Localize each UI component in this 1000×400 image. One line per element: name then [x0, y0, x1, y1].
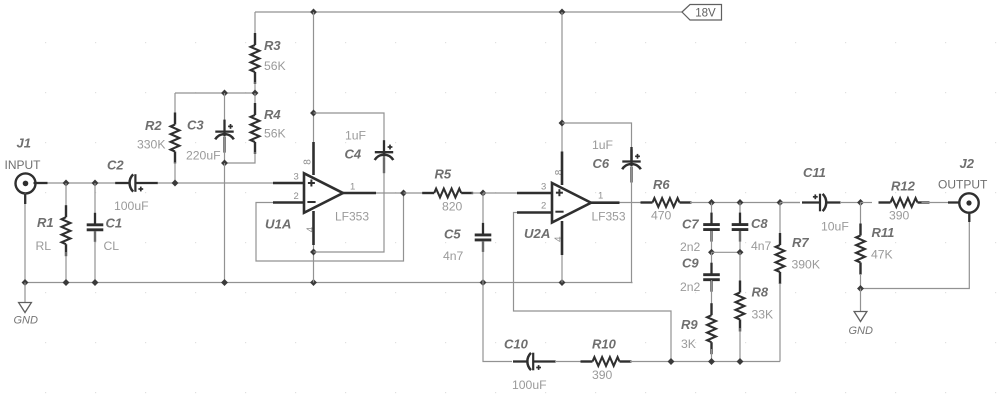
- junction rail C1: [92, 280, 98, 286]
- svg-text:3K: 3K: [681, 337, 696, 351]
- wire U2A output: [620, 202, 642, 204]
- value 10uF: [821, 220, 849, 234]
- connector J2: [959, 193, 978, 212]
- svg-text:R11: R11: [872, 225, 895, 240]
- capacitor C7: [703, 213, 720, 242]
- junction rail U2A pin4: [559, 280, 565, 286]
- svg-text:3: 3: [541, 182, 546, 193]
- wire C5 bottom: [482, 241, 484, 283]
- wire R10 right: [630, 361, 780, 363]
- wire J1 down to ground: [24, 194, 26, 283]
- wire bias to C3: [224, 93, 226, 122]
- pin 1 label U1A: [350, 182, 355, 193]
- value 2n2 C9: [680, 280, 701, 294]
- svg-text:820: 820: [442, 200, 463, 214]
- svg-text:C3: C3: [187, 118, 204, 133]
- label R12: [891, 179, 916, 194]
- label J2: [960, 156, 975, 171]
- svg-text:C4: C4: [345, 147, 362, 162]
- junction R7 top: [777, 200, 783, 206]
- label R7: [792, 235, 809, 250]
- svg-text:GND: GND: [849, 325, 874, 337]
- label R9: [681, 317, 698, 332]
- wire C7 top: [711, 203, 713, 222]
- svg-text:2: 2: [541, 201, 546, 212]
- wire U1A feedback loop: [256, 193, 404, 261]
- svg-text:100uF: 100uF: [512, 378, 547, 392]
- wire U1A pin4 to ground: [313, 245, 315, 283]
- label C4: [345, 147, 362, 162]
- wire R7 bottom: [779, 283, 781, 362]
- svg-text:C6: C6: [593, 156, 610, 171]
- svg-text:3: 3: [294, 172, 299, 183]
- wire C6 top: [562, 123, 632, 150]
- svg-text:10uF: 10uF: [821, 220, 849, 234]
- svg-text:J2: J2: [960, 156, 975, 171]
- junction feedback/chain: [668, 359, 674, 365]
- capacitor C11: [802, 194, 841, 212]
- junction C7/C9: [709, 249, 715, 255]
- junction R3/R4: [252, 90, 258, 96]
- value 56K R4: [264, 127, 286, 141]
- svg-text:1uF: 1uF: [592, 138, 613, 152]
- wire pin3 stub U1A: [273, 182, 305, 185]
- label R3: [264, 38, 281, 53]
- label R5: [435, 166, 452, 181]
- svg-text:390: 390: [592, 368, 613, 382]
- label C2: [107, 158, 124, 173]
- junction top rail / U2A pin8: [559, 9, 565, 15]
- pin 8 label U2A: [554, 169, 565, 175]
- junction rail J1: [22, 280, 28, 286]
- wire C8 top: [739, 203, 741, 222]
- junction C4 bottom / pin4: [311, 249, 317, 255]
- label U2A: [524, 226, 550, 241]
- svg-text:1: 1: [598, 191, 603, 202]
- svg-text:R9: R9: [681, 317, 698, 332]
- resistor R10: [581, 357, 632, 366]
- junction rail U1A pin4: [311, 280, 317, 286]
- value 820: [442, 200, 463, 214]
- wire to U2A pin3: [483, 192, 517, 194]
- value 330K: [137, 138, 165, 152]
- wire U2A pin4 stub: [561, 221, 564, 255]
- svg-text:390K: 390K: [792, 258, 820, 272]
- pin 4 label U1A: [306, 226, 317, 232]
- svg-text:56K: 56K: [264, 127, 286, 141]
- label C10: [504, 337, 529, 352]
- capacitor C3: [215, 120, 234, 153]
- svg-text:33K: 33K: [752, 308, 774, 322]
- label R8: [752, 285, 769, 300]
- label R11: [872, 225, 895, 240]
- wire +18V top rail: [255, 11, 682, 13]
- value 3K: [681, 337, 696, 351]
- pin 3 label U2A: [541, 182, 546, 193]
- wire C3 to bottom node: [224, 136, 226, 163]
- value 1uF C6: [592, 138, 613, 152]
- label R1: [37, 215, 54, 230]
- wire R11 bottom: [860, 274, 862, 289]
- wire pin2 stub U1A: [273, 201, 305, 204]
- pin 2 label U2A: [541, 201, 546, 212]
- wire pin3 stub U2A: [517, 192, 553, 195]
- value 2n2 C7: [680, 240, 701, 254]
- junction C8 top: [737, 200, 743, 206]
- label C3: [187, 118, 204, 133]
- svg-text:C1: C1: [106, 216, 123, 231]
- svg-text:U2A: U2A: [524, 226, 550, 241]
- wire R6 right: [690, 202, 800, 204]
- svg-text:8: 8: [303, 159, 314, 165]
- wire C3 node to ground rail: [224, 163, 226, 283]
- wire C6 bottom: [632, 167, 633, 283]
- svg-text:R5: R5: [435, 166, 452, 181]
- value 56K R3: [264, 59, 286, 73]
- value CL: [104, 239, 120, 253]
- label C11: [803, 165, 826, 180]
- capacitor C6 leads: [630, 147, 632, 161]
- value 220uF: [186, 149, 221, 163]
- pin 4 label U2A: [554, 236, 565, 242]
- capacitor C1: [87, 213, 104, 242]
- wire R12 to J2: [922, 202, 959, 204]
- label OUTPUT: [938, 178, 988, 192]
- label J1: [17, 136, 31, 151]
- label C6: [593, 156, 610, 171]
- label LF353 U2A: [592, 210, 626, 224]
- pin 3 label U1A: [294, 172, 299, 183]
- value 1uF C4: [345, 129, 366, 143]
- svg-text:C9: C9: [682, 255, 699, 270]
- value 470: [651, 209, 672, 223]
- svg-text:R6: R6: [653, 177, 670, 192]
- junction R11 top: [858, 200, 864, 206]
- svg-text:2: 2: [294, 191, 299, 202]
- wire R8 top: [739, 252, 741, 283]
- wire R1 bottom: [65, 252, 67, 283]
- svg-text:R12: R12: [891, 179, 916, 194]
- value 4n7 C8: [751, 239, 772, 253]
- connector J1: [16, 173, 36, 193]
- ground J2: [849, 289, 874, 338]
- wire bias to R2: [174, 93, 176, 113]
- wire to R5: [404, 192, 425, 194]
- label LF353 U1A: [335, 210, 369, 224]
- svg-text:4n7: 4n7: [443, 249, 464, 263]
- svg-text:2n2: 2n2: [680, 240, 701, 254]
- junction C4 top: [311, 110, 317, 116]
- wire 18V to R3: [254, 12, 256, 35]
- wire C10 to R10: [555, 361, 582, 363]
- svg-text:C2: C2: [107, 158, 124, 173]
- label R6: [653, 177, 670, 192]
- junction U1A output node: [401, 190, 407, 196]
- resistor R8: [736, 281, 745, 332]
- svg-text:R2: R2: [145, 118, 162, 133]
- svg-text:330K: 330K: [137, 138, 165, 152]
- value 4n7 C5: [443, 249, 464, 263]
- capacitor C6: [622, 150, 641, 183]
- junction bias/C3: [222, 90, 228, 96]
- capacitor C4: [375, 140, 394, 173]
- svg-text:47K: 47K: [871, 248, 893, 262]
- svg-text:4: 4: [306, 226, 317, 232]
- wire U1A output: [376, 192, 404, 194]
- svg-text:56K: 56K: [264, 59, 286, 73]
- value 33K: [752, 308, 774, 322]
- wire bias node: [175, 92, 255, 94]
- wire link C7 C8: [712, 251, 741, 253]
- capacitor C9: [703, 263, 720, 292]
- wire pin2 stub U2A: [517, 211, 553, 214]
- wire U1A pin8 to rail: [313, 12, 315, 142]
- svg-text:R7: R7: [792, 235, 809, 250]
- junction C8/R8: [737, 249, 743, 255]
- wire U1A pin4 stub: [312, 211, 315, 245]
- junction rail C3: [222, 280, 228, 286]
- wire R4 to bottom: [225, 152, 256, 163]
- wire J2 ground return: [861, 213, 970, 289]
- wire C9 bottom: [711, 280, 713, 305]
- svg-text:U1A: U1A: [265, 217, 291, 232]
- op-amp U2A: [552, 183, 591, 223]
- wire R1 top: [65, 183, 67, 206]
- resistor R6: [641, 198, 692, 207]
- svg-text:18V: 18V: [695, 8, 716, 20]
- value 100uF C10: [512, 378, 547, 392]
- wire U1A pin8 stub: [312, 142, 315, 175]
- wire R5 to C5 node: [472, 192, 484, 194]
- svg-text:RL: RL: [36, 239, 52, 253]
- capacitor C5: [475, 223, 492, 252]
- op-amp U1A: [304, 173, 343, 213]
- wire R11 top: [860, 203, 862, 230]
- label C5: [444, 227, 461, 242]
- wire to R12: [861, 202, 873, 204]
- label INPUT: [5, 158, 42, 172]
- value 100uF C2: [114, 199, 149, 213]
- svg-text:220uF: 220uF: [186, 149, 221, 163]
- wire U2A pin8 stub: [561, 152, 564, 186]
- wire C2 to opamp: [158, 182, 274, 184]
- wire ground rail: [24, 282, 633, 284]
- svg-text:1uF: 1uF: [345, 129, 366, 143]
- junction top rail / U1A pin8: [311, 9, 317, 15]
- wire to C11: [780, 202, 800, 204]
- wire U1A output stub: [343, 192, 376, 195]
- value RL: [36, 239, 52, 253]
- svg-text:C10: C10: [504, 337, 529, 352]
- svg-text:LF353: LF353: [592, 210, 626, 224]
- wire U2A output stub: [591, 201, 620, 204]
- wire C4 top: [314, 113, 385, 152]
- resistor R1: [62, 205, 71, 256]
- svg-text:C5: C5: [444, 227, 461, 242]
- label C9: [682, 255, 699, 270]
- ground J1: [14, 283, 39, 327]
- pin 1 label U2A: [598, 191, 603, 202]
- wire R3 to node: [254, 82, 256, 93]
- svg-text:OUTPUT: OUTPUT: [938, 178, 988, 192]
- junction R5/C5: [480, 190, 486, 196]
- wire C5 top: [482, 193, 484, 234]
- svg-text:R1: R1: [37, 215, 54, 230]
- junction R9 bottom: [709, 359, 715, 365]
- wire C1 top: [94, 183, 96, 224]
- svg-text:C8: C8: [751, 216, 768, 231]
- svg-text:INPUT: INPUT: [5, 158, 42, 172]
- junction R2/signal: [172, 180, 178, 186]
- svg-text:1: 1: [350, 182, 355, 193]
- svg-text:390: 390: [889, 209, 910, 223]
- wire node to R4: [254, 93, 256, 104]
- wire C11 right: [840, 202, 861, 204]
- svg-text:100uF: 100uF: [114, 199, 149, 213]
- wire U2A pin8 to rail: [561, 12, 563, 152]
- svg-text:R10: R10: [592, 337, 617, 352]
- svg-text:4n7: 4n7: [751, 239, 772, 253]
- value 390 R12: [889, 209, 910, 223]
- value 390 R10: [592, 368, 613, 382]
- power flag 18V: [682, 5, 722, 21]
- wire C8 bottom: [739, 231, 741, 252]
- wire C9 top: [711, 252, 713, 271]
- resistor R12: [879, 198, 930, 207]
- junction rail C5: [480, 280, 486, 286]
- svg-text:J1: J1: [17, 136, 31, 151]
- wire R2 to signal: [174, 162, 176, 183]
- capacitor C2: [115, 174, 158, 192]
- label C8: [751, 216, 768, 231]
- capacitor C10: [513, 353, 556, 371]
- junction C3 bottom: [222, 160, 228, 166]
- resistor R9: [707, 303, 716, 354]
- svg-text:LF353: LF353: [335, 210, 369, 224]
- pin 8 label U1A: [303, 159, 314, 165]
- svg-text:C11: C11: [803, 165, 826, 180]
- capacitor C8: [732, 213, 749, 242]
- value 390K: [792, 258, 820, 272]
- svg-text:R4: R4: [264, 107, 281, 122]
- svg-text:2n2: 2n2: [680, 280, 701, 294]
- junction C7 top: [709, 200, 715, 206]
- wire R7 top: [779, 203, 781, 235]
- junction R8 bottom: [737, 359, 743, 365]
- label R10: [592, 337, 617, 352]
- svg-text:CL: CL: [104, 239, 120, 253]
- svg-text:R8: R8: [752, 285, 769, 300]
- pin 2 label U1A: [294, 191, 299, 202]
- wire U2A pin4 to ground: [561, 255, 563, 283]
- label C7: [682, 217, 699, 232]
- junction R1 top: [63, 180, 69, 186]
- resistor R4: [251, 103, 260, 154]
- junction C1 top: [92, 180, 98, 186]
- wire R8 bottom: [739, 328, 741, 362]
- svg-text:R3: R3: [264, 38, 281, 53]
- junction R11 bottom: [858, 286, 864, 292]
- wire U2A feedback: [514, 213, 672, 362]
- svg-text:GND: GND: [14, 315, 39, 327]
- label U1A: [265, 217, 291, 232]
- svg-text:470: 470: [651, 209, 672, 223]
- junction C6 top: [559, 120, 565, 126]
- wire C7 bottom: [711, 231, 713, 252]
- wire R9 bottom: [711, 349, 713, 362]
- svg-text:C7: C7: [682, 217, 699, 232]
- junction rail R1: [63, 280, 69, 286]
- wire ground to C10: [483, 283, 512, 362]
- value 47K: [871, 248, 893, 262]
- label R4: [264, 107, 281, 122]
- label R2: [145, 118, 162, 133]
- resistor R5: [422, 189, 473, 198]
- resistor R3: [251, 33, 260, 84]
- label C1: [106, 216, 123, 231]
- wire C1 bottom: [94, 231, 96, 283]
- resistor R11: [856, 224, 865, 275]
- wire J1 to C2: [34, 182, 117, 184]
- wire C4 bottom: [314, 158, 385, 253]
- resistor R7: [776, 233, 785, 284]
- resistor R2: [171, 113, 180, 164]
